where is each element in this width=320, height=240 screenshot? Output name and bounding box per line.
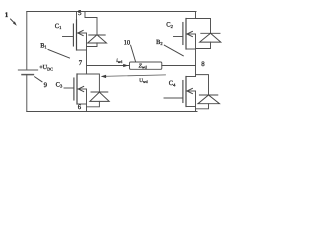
- C3 drain stub from node 7: [77, 73, 87, 75]
- svg-text:1: 1: [5, 11, 9, 19]
- C3 gate lead: [64, 87, 74, 89]
- wire: left rail upper (bus to battery): [26, 12, 28, 71]
- C3 source column to bottom bus: [86, 89, 88, 112]
- C1 gate lead: [63, 36, 74, 38]
- C3 gate bar: [73, 78, 75, 100]
- D3 cathode bar: [91, 91, 108, 93]
- D4 triangle: [198, 95, 220, 104]
- C1 gate bar: [72, 24, 74, 46]
- battery U_DC plate - (short): [22, 74, 33, 76]
- svg-text:Zwd: Zwd: [139, 63, 147, 69]
- D2 triangle: [200, 33, 221, 42]
- svg-text:8: 8: [201, 61, 205, 68]
- voltage arrow U_wd: [101, 75, 166, 84]
- wire: mid-right column (C2 source / D2 anode to node 8): [195, 34, 197, 77]
- C2 drain stub: [186, 18, 196, 20]
- C2 body stub with arrow: [187, 33, 196, 35]
- D1 cathode tap from bus: [85, 12, 97, 35]
- diode D2 (antiparallel to C2): [196, 12, 221, 49]
- C2 source stub: [186, 48, 196, 50]
- C4 gate bar: [182, 81, 184, 103]
- svg-text:C3: C3: [56, 81, 63, 88]
- load box Z_wd: [130, 62, 162, 70]
- C2 channel bar: [185, 19, 187, 50]
- C1 drain wire from bus: [76, 12, 78, 21]
- C4 drain stub from node 8: [186, 76, 196, 78]
- svg-text:B2: B2: [156, 39, 163, 46]
- transistor C4 (bottom-right switch): [164, 77, 196, 112]
- svg-text:C4: C4: [169, 80, 176, 87]
- svg-text:Uwd: Uwd: [139, 78, 147, 84]
- svg-text:10: 10: [124, 39, 131, 46]
- wire: load box to node 8: [162, 65, 196, 67]
- C4 gate lead: [164, 97, 183, 99]
- D2 anode jog to node 8 column: [196, 42, 211, 48]
- svg-text:7: 7: [79, 59, 83, 67]
- svg-text:C2: C2: [166, 22, 173, 29]
- wire: bottom DC bus: [27, 111, 197, 113]
- D4 cathode jog from node 8 column: [196, 75, 209, 95]
- C3 channel bar: [76, 74, 78, 104]
- svg-text:5: 5: [78, 9, 82, 17]
- label +U_DC: [39, 64, 53, 71]
- C4 body stub with arrow: [187, 90, 196, 92]
- leader arrow of label 1: [11, 19, 17, 26]
- svg-text:C1: C1: [55, 23, 62, 30]
- C4 source stub: [186, 106, 196, 108]
- C1 channel bar: [76, 20, 78, 50]
- C2 gate lead: [174, 36, 183, 38]
- D1 triangle: [88, 35, 107, 43]
- D3 cathode jog from node 7 column: [87, 74, 100, 92]
- C3 body stub with arrow: [78, 88, 87, 90]
- diode D1 (antiparallel to C1): [85, 12, 107, 47]
- D2 cathode bar: [201, 32, 220, 34]
- C1 body stub with arrow: [77, 32, 87, 34]
- label 10 with leader to load box: [124, 39, 136, 61]
- transistor C3 (bottom-left switch): [64, 74, 87, 112]
- D4 cathode bar: [199, 94, 217, 96]
- svg-text:iwd: iwd: [116, 58, 122, 64]
- D3 triangle: [90, 92, 109, 101]
- svg-text:9: 9: [44, 82, 48, 89]
- D2 cathode tap from bus end: [196, 12, 211, 34]
- figure label 1: [5, 11, 9, 19]
- label B1 with leader: [40, 42, 69, 58]
- transistor C2 (top-right switch): [174, 19, 196, 50]
- diode D3 (antiparallel to C3): [87, 74, 110, 107]
- C1 source stub: [77, 49, 87, 51]
- wire: node 7 to load box: [87, 65, 130, 67]
- current arrow i_wd: [116, 58, 128, 67]
- D1 cathode bar: [89, 34, 105, 36]
- C2 gate bar: [182, 23, 184, 45]
- diode D4 (antiparallel to C4): [196, 75, 220, 109]
- wire: left rail lower (battery to bottom bus): [26, 75, 28, 112]
- D3 anode jog to source column: [87, 101, 100, 106]
- D4 anode jog to source column: [196, 104, 209, 109]
- label B2 with leader: [156, 39, 183, 56]
- svg-text:B1: B1: [40, 42, 47, 49]
- transistor C1 (top-left switch): [63, 12, 87, 51]
- svg-text:6: 6: [78, 104, 82, 111]
- C3 source stub: [77, 103, 87, 105]
- wire: top DC bus: [27, 11, 196, 13]
- wire: mid-left column (C1 source / D1 anode to node 7): [86, 33, 88, 74]
- D1 anode jog to node 7 column: [87, 43, 98, 47]
- svg-text:+UDC: +UDC: [39, 64, 53, 71]
- C4 channel bar: [185, 77, 187, 107]
- battery U_DC plate + (long): [18, 69, 37, 71]
- C4 source column to bottom bus: [195, 91, 197, 112]
- label 9 with leader: [35, 77, 48, 89]
